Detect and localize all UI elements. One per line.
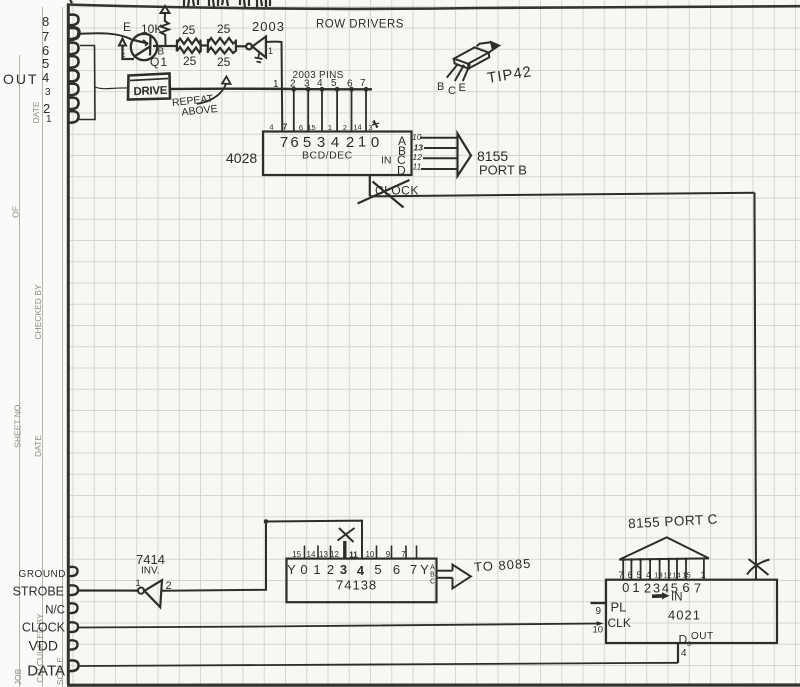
- input pin bump VDD: [70, 640, 78, 649]
- svg-text:2003: 2003: [252, 19, 285, 34]
- labels 25 25 (R2): [217, 22, 231, 69]
- 74138 ABC select labels: [430, 565, 435, 586]
- margin label SHEET NO.: [13, 402, 23, 448]
- label VDD: [28, 638, 58, 654]
- svg-text:DATE: DATE: [33, 435, 43, 457]
- Q1 labels E B Q1 c: [122, 20, 168, 69]
- svg-text:11: 11: [349, 551, 358, 560]
- svg-text:BCD/DEC: BCD/DEC: [302, 150, 353, 162]
- svg-text:2: 2: [327, 562, 334, 577]
- svg-text:E: E: [123, 20, 131, 34]
- label 2003: [252, 19, 285, 34]
- 74138 pin numbers: [292, 550, 406, 560]
- pin feet nubs: [622, 558, 688, 562]
- margin label DATE (lower): [33, 435, 43, 457]
- svg-text:DATE: DATE: [31, 101, 41, 123]
- sheet border bottom: [67, 683, 800, 686]
- wire R2 to 2003 input bubble: [236, 45, 246, 47]
- svg-text:INV.: INV.: [141, 566, 160, 577]
- svg-text:10K: 10K: [141, 22, 162, 36]
- wire Q1 base to resistors: [153, 45, 177, 47]
- svg-text:9: 9: [596, 606, 602, 617]
- label 7414 INV.: [136, 552, 165, 577]
- svg-text:ROW DRIVERS: ROW DRIVERS: [316, 19, 404, 31]
- svg-text:74138: 74138: [336, 578, 377, 593]
- svg-text:3: 3: [45, 87, 51, 98]
- svg-text:PORT B: PORT B: [479, 163, 527, 178]
- svg-text:12: 12: [663, 571, 671, 580]
- bus drop wires to 4028: [294, 89, 366, 131]
- asterisk above pin 3: [372, 120, 379, 128]
- ground at 2003: [255, 52, 263, 63]
- svg-text:7: 7: [42, 29, 49, 44]
- margin form lines: [20, 7, 63, 687]
- svg-text:D: D: [397, 164, 406, 178]
- input pin bump DATA: [70, 660, 79, 671]
- svg-text:15: 15: [682, 571, 690, 580]
- svg-text:1: 1: [46, 114, 52, 125]
- svg-text:GROUND: GROUND: [19, 569, 66, 580]
- svg-text:13: 13: [654, 571, 662, 580]
- label 10K: [141, 22, 162, 36]
- 74138 bold pin 12 tick: [343, 541, 346, 559]
- label DATA: [27, 663, 65, 680]
- CLOCK wire to 4021: [78, 624, 599, 628]
- svg-text:1: 1: [358, 134, 366, 151]
- svg-text:6: 6: [682, 580, 689, 595]
- svg-text:7: 7: [618, 570, 623, 580]
- label DRIVE: [133, 85, 168, 98]
- svg-text:15: 15: [307, 123, 315, 132]
- svg-text:13: 13: [414, 143, 424, 153]
- label 74138: [336, 578, 377, 593]
- svg-text:DRIVE: DRIVE: [133, 85, 168, 98]
- svg-text:1: 1: [632, 580, 639, 595]
- margin label SCALE: [55, 657, 65, 685]
- label BCD/DEC: [302, 150, 353, 162]
- curved arrow from note: [197, 77, 231, 105]
- svg-text:0: 0: [622, 580, 629, 595]
- svg-text:10: 10: [593, 625, 604, 636]
- svg-text:12: 12: [413, 152, 423, 162]
- bus junction dots: [291, 87, 368, 92]
- svg-text:12: 12: [330, 550, 339, 559]
- resistor 10K pull-up with arrow: [161, 6, 170, 46]
- label PL: [611, 600, 627, 615]
- wires A-D to port arrow: [420, 138, 458, 169]
- label OUT (connector name): [3, 71, 39, 87]
- svg-text:11: 11: [413, 162, 422, 172]
- junction dot at corner: [264, 519, 269, 524]
- 4028 big output digits: [280, 134, 379, 152]
- resistor pair R2 25/25: [208, 38, 236, 54]
- 74138 output labels Y0-7Y: [287, 562, 429, 578]
- 4021 input digits 0-7: [622, 580, 701, 596]
- label TIP42: [486, 63, 533, 87]
- svg-text:Y: Y: [420, 562, 429, 577]
- svg-text:15: 15: [292, 550, 301, 559]
- label 8155 PORT B: [477, 148, 527, 178]
- X mark above 74138: [338, 528, 355, 542]
- svg-text:7: 7: [283, 122, 288, 132]
- svg-text:CLOCK: CLOCK: [22, 621, 66, 635]
- svg-text:4: 4: [42, 70, 49, 85]
- svg-text:7: 7: [280, 134, 288, 151]
- margin label CALCULATED BY: [35, 613, 45, 683]
- svg-text:JOB: JOB: [13, 668, 23, 685]
- svg-text:0: 0: [300, 562, 307, 577]
- label 8155 PORT C: [628, 512, 718, 532]
- label CLOCK: [22, 621, 66, 635]
- svg-text:0: 0: [371, 134, 379, 151]
- svg-text:6: 6: [627, 570, 632, 580]
- 4028 BCD/DEC IC body: [263, 132, 412, 176]
- wire pin7 to Q1 emitter: [77, 33, 132, 39]
- X over CLOCK: [358, 180, 410, 208]
- label IN (4028): [381, 155, 392, 167]
- svg-text:C: C: [430, 579, 435, 586]
- svg-text:7: 7: [410, 562, 417, 577]
- svg-text:B: B: [430, 572, 435, 579]
- label IN (4021): [671, 592, 683, 604]
- X mark on right column wire: [747, 559, 770, 575]
- arrow head to 8085: [453, 565, 471, 589]
- TIP42 package sketch: [454, 42, 499, 68]
- 2003 pin numbers 1-7: [273, 78, 366, 90]
- connector coil OUT pins 1-8: [68, 15, 79, 123]
- arrow to 8155 PORT B: [458, 134, 472, 177]
- 4028 ABCD outputs: [397, 134, 406, 178]
- inverter U2 triangle: [144, 580, 162, 607]
- svg-text:1: 1: [328, 123, 332, 132]
- svg-text:9: 9: [386, 550, 391, 559]
- PL pin number 9: [596, 606, 602, 617]
- fanout roof over 4021: [619, 537, 709, 559]
- pin 1 label of 2003: [268, 46, 273, 56]
- svg-text:5: 5: [374, 562, 381, 577]
- wire inverter output to 74138: [162, 521, 363, 591]
- DRIVE box: [128, 74, 170, 100]
- TIP42 lead labels B C E: [437, 81, 466, 97]
- svg-text:DATA: DATA: [27, 663, 65, 680]
- svg-text:8: 8: [42, 14, 49, 29]
- label 4021: [668, 608, 701, 623]
- margin label CHECKED BY: [33, 284, 43, 340]
- input pin bump STROBE: [70, 585, 79, 595]
- IN arrow (4021): [652, 592, 670, 599]
- svg-text:2: 2: [343, 123, 347, 132]
- svg-text:6: 6: [299, 123, 303, 132]
- transistor Q1: [119, 34, 157, 60]
- svg-text:5: 5: [303, 134, 311, 151]
- svg-text:CLK: CLK: [608, 616, 631, 630]
- CLK wire arrowhead: [597, 621, 604, 625]
- PL pin stub: [591, 602, 607, 604]
- resistor pair R1 25/25: [177, 39, 201, 54]
- label GROUND: [19, 569, 66, 580]
- label 2003 PINS: [293, 70, 344, 81]
- margin label DATE (top): [31, 101, 41, 123]
- wire 2003 output down to 4028: [266, 42, 282, 132]
- svg-text:2: 2: [644, 581, 651, 596]
- 4021 top pin numbers: [618, 570, 705, 580]
- long clock wire to right column: [370, 193, 755, 197]
- svg-text:Y: Y: [287, 562, 296, 577]
- svg-text:1: 1: [313, 562, 320, 577]
- svg-text:7: 7: [401, 550, 406, 559]
- svg-text:4: 4: [331, 134, 339, 151]
- svg-text:A: A: [430, 565, 435, 572]
- label CLK: [608, 616, 631, 630]
- margin label OF: [11, 206, 21, 218]
- 74138 pin ticks: [305, 546, 417, 559]
- svg-text:1: 1: [268, 46, 273, 56]
- sheet border top: [67, 5, 800, 9]
- label CLOCK (crossed out): [375, 184, 419, 198]
- label Ds OUT: [679, 631, 714, 648]
- svg-text:5: 5: [636, 570, 641, 580]
- svg-text:Q1: Q1: [150, 55, 168, 69]
- svg-text:OF: OF: [11, 206, 21, 218]
- 4021 IC body: [606, 580, 777, 643]
- input pin bump CLOCK: [70, 622, 79, 632]
- labels 25 25 (R1): [182, 23, 197, 68]
- label STROBE: [13, 585, 64, 599]
- TIP42 leads: [447, 64, 470, 81]
- label 4028: [226, 150, 257, 166]
- svg-text:IN: IN: [671, 592, 683, 604]
- svg-text:c: c: [122, 52, 126, 59]
- svg-text:25: 25: [182, 23, 196, 37]
- svg-text:14: 14: [307, 550, 316, 559]
- arrow shaft to 8085: [437, 571, 453, 578]
- svg-text:OUT: OUT: [691, 631, 714, 642]
- svg-text:CHECKED BY: CHECKED BY: [33, 284, 43, 340]
- DATA wire: [79, 663, 679, 666]
- svg-text:13: 13: [319, 550, 328, 559]
- 4028 output pin numbers 10 13 12 11: [412, 132, 423, 172]
- svg-text:25: 25: [217, 22, 231, 36]
- svg-text:4: 4: [646, 570, 651, 580]
- svg-text:3: 3: [317, 134, 325, 151]
- svg-text:IN: IN: [381, 155, 392, 167]
- svg-text:N/C: N/C: [45, 605, 65, 617]
- svg-text:4: 4: [681, 648, 687, 659]
- svg-text:C: C: [448, 85, 456, 97]
- wire R1-R2: [201, 44, 208, 46]
- title ROW DRIVERS: [316, 19, 404, 31]
- svg-text:5: 5: [42, 56, 49, 71]
- svg-text:1: 1: [700, 570, 705, 580]
- svg-text:3: 3: [653, 581, 660, 596]
- svg-text:VDD: VDD: [28, 638, 58, 654]
- 74138 IC body: [287, 559, 437, 603]
- cropped handwriting marks at top edge: [70, 0, 270, 7]
- note REPEAT ABOVE: [171, 92, 218, 119]
- svg-text:B: B: [437, 81, 444, 93]
- input pin bump GROUND: [70, 567, 78, 576]
- svg-text:4021: 4021: [668, 608, 701, 623]
- svg-text:4: 4: [269, 123, 273, 132]
- pin number 4: [681, 648, 687, 659]
- svg-text:2: 2: [346, 134, 354, 151]
- bracket pins 6-1: [79, 46, 129, 120]
- drive bus wire: [170, 87, 372, 90]
- 4021 input pin wires: [623, 559, 704, 580]
- svg-text:OUT: OUT: [3, 71, 39, 87]
- svg-text:PL: PL: [611, 600, 627, 615]
- label TO 8085: [474, 556, 532, 575]
- 4028 clock stub wire: [369, 175, 371, 196]
- CLK pin number 10: [593, 625, 604, 636]
- Ds OUT pin stub: [677, 643, 679, 663]
- svg-text:4028: 4028: [226, 150, 257, 166]
- svg-text:E: E: [459, 82, 466, 94]
- inverter U2 bubble: [138, 588, 144, 594]
- margin label JOB: [13, 668, 23, 685]
- input pin bump N/C: [70, 603, 78, 613]
- label N/C: [45, 605, 65, 617]
- svg-text:1: 1: [136, 578, 141, 588]
- svg-text:25: 25: [217, 55, 231, 69]
- svg-text:6: 6: [393, 562, 400, 577]
- svg-text:3: 3: [340, 562, 347, 577]
- svg-text:6: 6: [290, 134, 298, 151]
- svg-text:STROBE: STROBE: [13, 585, 64, 599]
- 4028 top pin numbers: [269, 122, 372, 133]
- right column wire down to 4021: [755, 193, 757, 580]
- svg-text:14: 14: [672, 571, 680, 580]
- wire STROBE to inverter: [77, 589, 138, 591]
- sheet border left: [67, 4, 70, 684]
- svg-text:10: 10: [366, 550, 375, 559]
- coil pin numbers 8..1: [42, 14, 52, 125]
- inverter pin labels 1 2: [136, 578, 172, 592]
- svg-text:14: 14: [353, 123, 361, 132]
- svg-text:25: 25: [183, 54, 197, 68]
- svg-text:4: 4: [357, 563, 365, 578]
- svg-text:SHEET NO.: SHEET NO.: [13, 402, 23, 448]
- svg-text:7: 7: [694, 581, 701, 596]
- 2003 driver U1 (triangle with bubble): [246, 37, 266, 58]
